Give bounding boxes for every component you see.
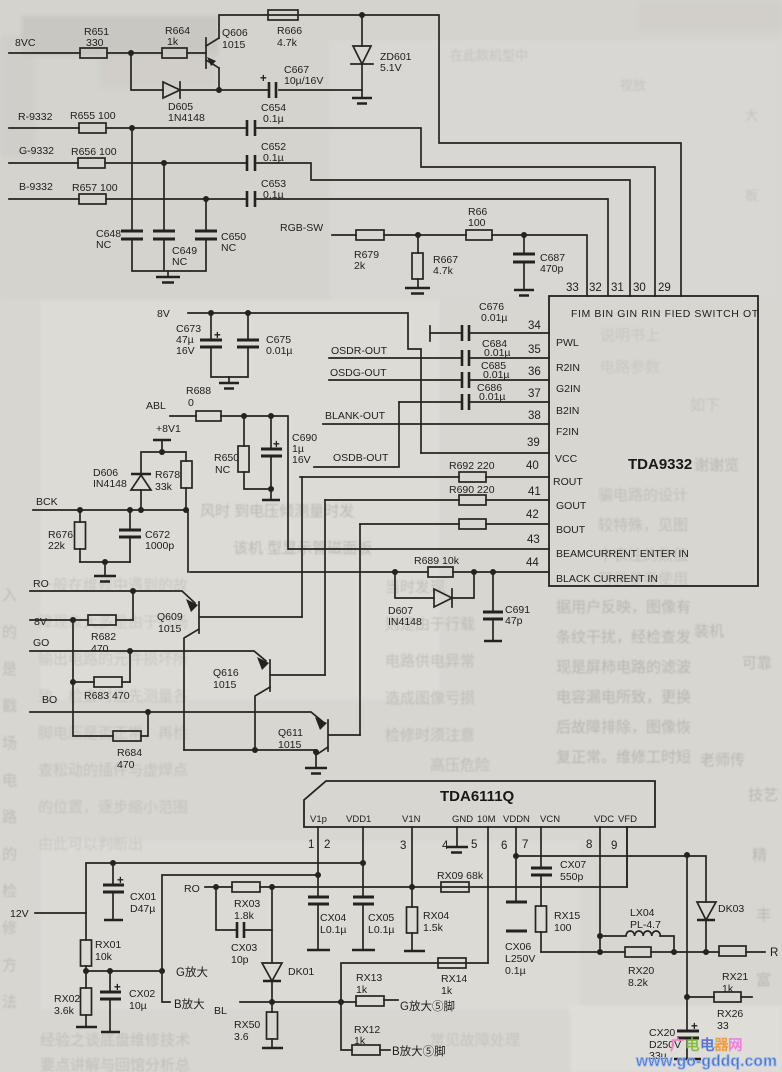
capacitor C686 0.01u	[462, 382, 506, 410]
capacitor C653 0.1u	[247, 178, 286, 207]
svg-text:8V: 8V	[157, 308, 170, 320]
wire BO line	[30, 712, 322, 721]
svg-text:DK01: DK01	[288, 966, 314, 978]
svg-text:VDDN: VDDN	[503, 814, 530, 825]
svg-text:L0.1µ: L0.1µ	[320, 924, 347, 936]
diode DK01	[262, 930, 314, 1002]
svg-text:电: 电	[685, 1036, 700, 1054]
svg-text:BEAMCURRENT ENTER IN: BEAMCURRENT ENTER IN	[556, 548, 689, 560]
svg-text:方: 方	[2, 957, 17, 974]
resistor R692 220	[449, 460, 495, 482]
svg-text:富: 富	[756, 971, 771, 989]
junction C691 tap	[490, 569, 496, 575]
transistor Q606 1015	[206, 27, 248, 68]
svg-text:R655 100: R655 100	[70, 110, 116, 122]
svg-text:D47µ: D47µ	[130, 903, 155, 915]
ground below C687	[514, 290, 534, 296]
svg-text:精: 精	[752, 847, 767, 864]
capacitor C676 0.01u	[462, 301, 508, 341]
resistor R657 100	[72, 182, 118, 204]
junction on 8VC line	[128, 50, 134, 56]
svg-text:7: 7	[522, 839, 528, 851]
pin 35 wire R2IN	[329, 357, 549, 359]
wire B input line	[9, 199, 608, 296]
junction C673	[208, 310, 214, 316]
wire BOUT downfeed to Q611 base	[359, 524, 361, 735]
pin 9 stub VFD	[626, 827, 628, 887]
wire G-amp node line	[86, 970, 162, 972]
svg-text:32: 32	[589, 282, 602, 294]
resistor RX02 3.6k	[54, 971, 97, 1027]
svg-text:VDD1: VDD1	[346, 814, 371, 825]
svg-text:RX02: RX02	[54, 993, 80, 1005]
svg-text:RO: RO	[184, 883, 200, 895]
svg-text:法: 法	[2, 994, 17, 1011]
svg-text:R666: R666	[277, 25, 302, 37]
ground below C690	[262, 499, 280, 502]
resistor R656 100	[71, 146, 117, 168]
svg-text:G-9332: G-9332	[19, 145, 54, 157]
svg-text:38: 38	[528, 410, 541, 422]
resistor RX15 100	[536, 906, 581, 952]
svg-text:1000p: 1000p	[145, 540, 174, 552]
svg-text:后故障排除，图像恢: 后故障排除，图像恢	[556, 718, 691, 736]
svg-text:条纹干扰，经检查发: 条纹干扰，经检查发	[556, 629, 691, 646]
transistor Q609 1015	[157, 599, 302, 750]
svg-text:9: 9	[611, 840, 617, 852]
svg-text:RX26: RX26	[717, 1008, 743, 1020]
ground below ZD601	[352, 98, 372, 104]
zener ZD601 5.1V	[351, 15, 412, 98]
capacitor CX06 L250V 0.1u	[505, 856, 535, 977]
wire 8VC line	[9, 52, 206, 54]
pin 42 wire BOUT	[360, 523, 549, 525]
capacitor C684 0.01u	[462, 338, 511, 366]
capacitor CX20 D250V 33u	[649, 1021, 701, 1062]
capacitor C685 0.01u	[462, 360, 510, 388]
wire 8V bias line	[30, 619, 133, 621]
pin 2 stub VDD1	[362, 827, 364, 863]
wire ROUT downfeed to Q609 base	[301, 477, 303, 617]
svg-text:OSDR-OUT: OSDR-OUT	[331, 345, 388, 357]
svg-text:G放大: G放大	[176, 965, 208, 979]
svg-text:要点讲解与回馆分析总: 要点讲解与回馆分析总	[40, 1057, 190, 1072]
pin 40 wire ROUT	[300, 476, 549, 478]
svg-text:VDC: VDC	[594, 814, 614, 825]
svg-text:IN4148: IN4148	[388, 616, 422, 628]
capacitor CX03 10p bypass	[216, 887, 272, 966]
junction RO / R682	[130, 588, 136, 594]
svg-text:NC: NC	[96, 239, 112, 251]
svg-text:DK03: DK03	[718, 903, 744, 915]
svg-text:12V: 12V	[10, 908, 29, 920]
svg-text:30: 30	[633, 282, 646, 294]
capacitor C687 470p	[513, 235, 565, 290]
svg-text:470p: 470p	[540, 263, 564, 275]
svg-text:39: 39	[527, 437, 540, 449]
transistor Q616 1015	[213, 657, 325, 750]
svg-text:CX04: CX04	[320, 912, 346, 924]
junction GO / R683	[127, 648, 133, 654]
capacitor C691 47p	[483, 572, 530, 641]
svg-text:+: +	[260, 73, 267, 85]
capacitor C649 NC	[153, 231, 197, 268]
svg-text:PL-4.7: PL-4.7	[630, 919, 661, 931]
pin 41 wire GOUT	[325, 499, 549, 501]
svg-text:RX04: RX04	[423, 910, 449, 922]
svg-text:+8V1: +8V1	[156, 423, 181, 435]
svg-text:10M: 10M	[477, 814, 496, 825]
svg-text:R650: R650	[214, 452, 239, 464]
svg-text:0.01µ: 0.01µ	[483, 369, 510, 381]
svg-text:1.5k: 1.5k	[423, 922, 444, 934]
svg-text:0.1µ: 0.1µ	[263, 152, 284, 164]
svg-text:8V: 8V	[34, 616, 47, 628]
svg-text:RX15: RX15	[554, 910, 580, 922]
svg-text:GND: GND	[452, 814, 473, 825]
svg-text:TDA9332: TDA9332	[628, 456, 692, 473]
svg-text:47p: 47p	[505, 615, 523, 627]
wire GO line	[30, 651, 266, 661]
svg-text:R682: R682	[91, 631, 116, 643]
resistor RX26 33	[687, 992, 752, 1032]
pin 4 ground GND	[446, 827, 468, 853]
svg-text:1015: 1015	[158, 623, 182, 635]
wire R684 output up to BO line	[141, 712, 148, 736]
svg-text:www.go-gddq.com: www.go-gddq.com	[635, 1053, 777, 1070]
svg-text:大: 大	[745, 108, 758, 123]
svg-text:R678: R678	[155, 469, 180, 481]
junction C690 tap	[268, 413, 274, 419]
resistor RX03 1.8k	[232, 882, 260, 922]
resistor RX01 10k	[81, 913, 122, 971]
svg-text:40: 40	[526, 460, 539, 472]
svg-text:10p: 10p	[231, 954, 249, 966]
svg-text:入: 入	[2, 587, 17, 604]
svg-text:34: 34	[528, 320, 541, 332]
svg-text:较特殊，见图: 较特殊，见图	[598, 516, 688, 534]
junction G line	[161, 160, 167, 166]
svg-text:LX04: LX04	[630, 907, 655, 919]
svg-text:31: 31	[611, 282, 624, 294]
svg-text:33: 33	[566, 282, 579, 294]
svg-text:R: R	[770, 947, 778, 959]
junction LX04 left	[597, 933, 603, 939]
svg-text:4.7k: 4.7k	[277, 37, 298, 49]
svg-text:老师传: 老师传	[700, 752, 745, 769]
svg-text:的: 的	[2, 846, 17, 863]
svg-text:RX03: RX03	[234, 898, 260, 910]
svg-text:装机: 装机	[694, 623, 724, 640]
svg-text:43: 43	[527, 534, 540, 546]
svg-text:V1p: V1p	[310, 814, 327, 825]
resistor R691	[459, 519, 486, 529]
svg-text:场: 场	[2, 735, 17, 752]
resistor RX04 1.5k	[404, 887, 449, 951]
wire RO line to V1N	[205, 827, 627, 887]
svg-text:CX03: CX03	[231, 942, 257, 954]
svg-text:1N4148: 1N4148	[168, 112, 205, 124]
svg-text:修: 修	[2, 920, 17, 937]
svg-text:33: 33	[717, 1020, 729, 1032]
svg-text:100: 100	[468, 217, 486, 229]
svg-text:10µ/16V: 10µ/16V	[284, 75, 323, 87]
junction CX01	[110, 860, 116, 866]
svg-text:1k: 1k	[441, 985, 453, 997]
wire RX12 to B-amp pin5	[380, 1049, 390, 1051]
svg-text:RX14: RX14	[441, 973, 467, 985]
svg-text:PWL: PWL	[556, 337, 579, 349]
wire G-amp up to V1p rail	[162, 875, 318, 971]
svg-text:35: 35	[528, 344, 541, 356]
capacitor CX04 L0.1u	[307, 875, 347, 950]
resistor R689 10k	[414, 555, 460, 577]
svg-text:VCN: VCN	[540, 814, 560, 825]
svg-text:+: +	[273, 439, 280, 451]
svg-text:NC: NC	[221, 242, 237, 254]
svg-text:RX21: RX21	[722, 971, 748, 983]
svg-text:16V: 16V	[292, 454, 311, 466]
junction VDDN	[513, 853, 519, 859]
svg-text:R692 220: R692 220	[449, 460, 495, 472]
junction D607 right	[471, 569, 477, 575]
svg-text:现是屏柿电路的滤波: 现是屏柿电路的滤波	[556, 658, 691, 676]
capacitor CX01 D47u	[103, 863, 156, 920]
wire NC cap stubs	[132, 128, 206, 271]
svg-text:16V: 16V	[176, 345, 195, 357]
junction VDC lower	[597, 949, 603, 955]
resistor R667 4.7k	[412, 235, 458, 288]
svg-text:IN4148: IN4148	[93, 478, 127, 490]
svg-text:470: 470	[91, 643, 109, 655]
svg-text:BCK: BCK	[36, 496, 58, 508]
svg-text:5: 5	[471, 839, 477, 851]
svg-text:37: 37	[528, 388, 541, 400]
svg-text:V1N: V1N	[402, 814, 421, 825]
svg-text:1.8k: 1.8k	[234, 910, 255, 922]
svg-text:100: 100	[554, 922, 572, 934]
resistor R690 220	[449, 484, 495, 505]
svg-text:Q609: Q609	[157, 611, 183, 623]
svg-text:5.1V: 5.1V	[380, 62, 402, 74]
svg-text:OSDB-OUT: OSDB-OUT	[333, 452, 389, 464]
svg-text:BL: BL	[214, 1005, 227, 1017]
svg-text:RX13: RX13	[356, 972, 382, 984]
ground below NC caps	[156, 271, 180, 283]
wire common collector line	[184, 749, 316, 751]
svg-text:CX07: CX07	[560, 859, 586, 871]
svg-text:G2IN: G2IN	[556, 383, 581, 395]
svg-text:33k: 33k	[155, 481, 173, 493]
resistor R676 22k	[48, 510, 86, 562]
ground below collector line	[305, 752, 327, 774]
svg-text:1: 1	[308, 839, 314, 851]
resistor R664 1k	[162, 25, 190, 58]
transistor Q611 1015	[278, 717, 360, 755]
WATERMARK-LAYER	[635, 1036, 777, 1070]
svg-text:3.6: 3.6	[234, 1031, 249, 1043]
pin 37 wire B2IN	[399, 401, 549, 403]
svg-text:VFD: VFD	[618, 814, 637, 825]
junction R678 bottom	[183, 507, 189, 513]
svg-text:检修时须注意: 检修时须注意	[385, 726, 475, 744]
IC U601 TDA9332 box	[549, 296, 758, 586]
capacitor CX07 550p	[531, 859, 586, 906]
diode DK03	[697, 902, 744, 952]
pin 34 wire PWL	[430, 326, 549, 341]
svg-text:的: 的	[2, 624, 17, 641]
svg-text:1k: 1k	[356, 984, 368, 996]
svg-text:Q616: Q616	[213, 667, 239, 679]
svg-text:0.01µ: 0.01µ	[484, 347, 511, 359]
svg-text:网: 网	[728, 1037, 743, 1054]
svg-text:3: 3	[400, 840, 406, 852]
svg-text:电路参数: 电路参数	[600, 359, 660, 376]
resistor R651 330	[80, 26, 109, 58]
svg-text:RX09 68k: RX09 68k	[437, 870, 484, 882]
capacitor C673 47u 16V	[176, 313, 229, 377]
svg-text:L250V: L250V	[505, 953, 535, 965]
svg-text:+: +	[214, 330, 221, 342]
svg-text:复正常。维修工时短: 复正常。维修工时短	[556, 748, 691, 766]
svg-text:的位置，逐步缩小范围: 的位置，逐步缩小范围	[38, 799, 188, 816]
junction RX20 right	[671, 949, 677, 955]
svg-text:可靠: 可靠	[742, 655, 772, 672]
svg-text:GO: GO	[33, 637, 49, 649]
svg-text:44: 44	[526, 557, 539, 569]
junction BL riser	[338, 999, 344, 1005]
svg-text:0: 0	[188, 397, 194, 409]
junction Q616 collector	[252, 747, 258, 753]
svg-text:骗电路的设计: 骗电路的设计	[598, 487, 688, 504]
svg-text:电: 电	[700, 1036, 715, 1054]
junction R650/C690 bottom	[268, 486, 274, 492]
junction C687 tap	[521, 232, 527, 238]
resistor R683 470	[73, 677, 130, 702]
junction Q606 emitter on C667 line	[216, 87, 222, 93]
svg-text:8VC: 8VC	[15, 37, 36, 49]
junction G-amp corner	[159, 968, 165, 974]
junction RX50/DK01	[269, 999, 275, 1005]
pin 1 stub V1p	[317, 827, 319, 875]
svg-text:0.01µ: 0.01µ	[266, 345, 293, 357]
resistor R66 100	[466, 206, 492, 240]
resistor R688 0	[186, 385, 221, 421]
wire junction to D605 line	[131, 53, 163, 90]
svg-text:造成图像亏损: 造成图像亏损	[385, 690, 475, 707]
pin 38 wire F2IN	[323, 423, 549, 425]
svg-text:1015: 1015	[213, 679, 237, 691]
svg-text:36: 36	[528, 366, 541, 378]
svg-text:OSDG-OUT: OSDG-OUT	[330, 367, 387, 379]
svg-text:10µ: 10µ	[129, 1000, 147, 1012]
svg-text:R690 220: R690 220	[449, 484, 495, 496]
junction CX20 top	[684, 852, 690, 858]
junction C672	[127, 507, 133, 513]
svg-text:电路供电异常: 电路供电异常	[385, 653, 475, 670]
svg-text:ROUT: ROUT	[553, 476, 583, 488]
svg-text:1k: 1k	[167, 36, 179, 48]
resistor R684 470	[113, 731, 142, 771]
junction top rail / ZD601	[359, 12, 365, 18]
svg-text:L0.1µ: L0.1µ	[368, 924, 395, 936]
svg-text:22k: 22k	[48, 540, 66, 552]
pin 43 wire BEAMCURRENT from ABL	[289, 548, 549, 550]
junction R650 tap	[241, 413, 247, 419]
junction V1N	[409, 884, 415, 890]
svg-text:BLANK-OUT: BLANK-OUT	[325, 410, 386, 422]
IC TDA6111Q box	[304, 781, 655, 827]
svg-text:6: 6	[501, 840, 507, 852]
capacitor C654 0.1u	[247, 102, 286, 136]
svg-text:+: +	[691, 1021, 698, 1033]
svg-text:B2IN: B2IN	[556, 405, 579, 417]
svg-text:470: 470	[117, 759, 135, 771]
svg-text:路: 路	[2, 809, 17, 826]
svg-text:谢谢览: 谢谢览	[694, 457, 739, 474]
svg-text:NC: NC	[215, 464, 231, 476]
svg-text:TDA6111Q: TDA6111Q	[440, 788, 515, 805]
resistor RX12 1k	[352, 1024, 380, 1055]
svg-text:R-9332: R-9332	[18, 111, 53, 123]
ground below BCK filters	[94, 562, 116, 582]
capacitor C648 NC	[96, 228, 143, 251]
svg-text:ABL: ABL	[146, 400, 166, 412]
junction DK03 bottom	[703, 949, 709, 955]
svg-text:R656 100: R656 100	[71, 146, 117, 158]
svg-text:10k: 10k	[95, 951, 113, 963]
svg-text:G放大⑤脚: G放大⑤脚	[400, 999, 455, 1013]
svg-text:NC: NC	[172, 256, 188, 268]
pin 39 wire VCC from 8V	[421, 452, 549, 454]
svg-text:当时发现: 当时发现	[385, 579, 445, 596]
wire G input line	[9, 163, 630, 296]
wire BCK line	[33, 509, 188, 511]
pin 7 stub VCN	[540, 827, 542, 868]
svg-text:1k: 1k	[354, 1035, 366, 1047]
svg-text:RX01: RX01	[95, 939, 121, 951]
capacitor C652 0.1u	[247, 141, 286, 171]
junction C675	[245, 310, 251, 316]
capacitor C667 10u/16V	[219, 64, 362, 98]
svg-text:R689 10k: R689 10k	[414, 555, 460, 567]
svg-text:BLACK CURRENT IN: BLACK CURRENT IN	[556, 573, 658, 585]
svg-text:经验之谈底盘维修技术: 经验之谈底盘维修技术	[40, 1031, 190, 1049]
svg-text:查松动的插件与虚焊点: 查松动的插件与虚焊点	[38, 762, 188, 779]
svg-text:0.01µ: 0.01µ	[479, 391, 506, 403]
pin 36 wire G2IN	[329, 379, 549, 381]
wire Q606 emitter down	[218, 68, 220, 90]
capacitor C675 0.01u	[229, 313, 293, 377]
wire ABL line to pin43 feed	[170, 416, 288, 549]
svg-text:F2IN: F2IN	[556, 426, 579, 438]
wire GO junction down to R683	[129, 651, 131, 682]
svg-text:CX05: CX05	[368, 912, 394, 924]
wire Q606 collector to top rail	[219, 15, 681, 296]
junction R line	[129, 125, 135, 131]
svg-text:丰: 丰	[756, 907, 771, 924]
wire GOUT downfeed to Q616 base	[324, 500, 326, 675]
capacitor CX02 10u	[100, 971, 155, 1032]
svg-text:330: 330	[86, 37, 104, 49]
svg-text:CX02: CX02	[129, 988, 155, 1000]
svg-text:0.1µ: 0.1µ	[505, 965, 526, 977]
svg-text:板: 板	[745, 188, 758, 203]
svg-text:Q606: Q606	[222, 27, 248, 39]
capacitor C650 NC	[195, 231, 246, 254]
svg-text:戳: 戳	[2, 698, 17, 715]
resistor RX09 68k	[437, 870, 484, 892]
